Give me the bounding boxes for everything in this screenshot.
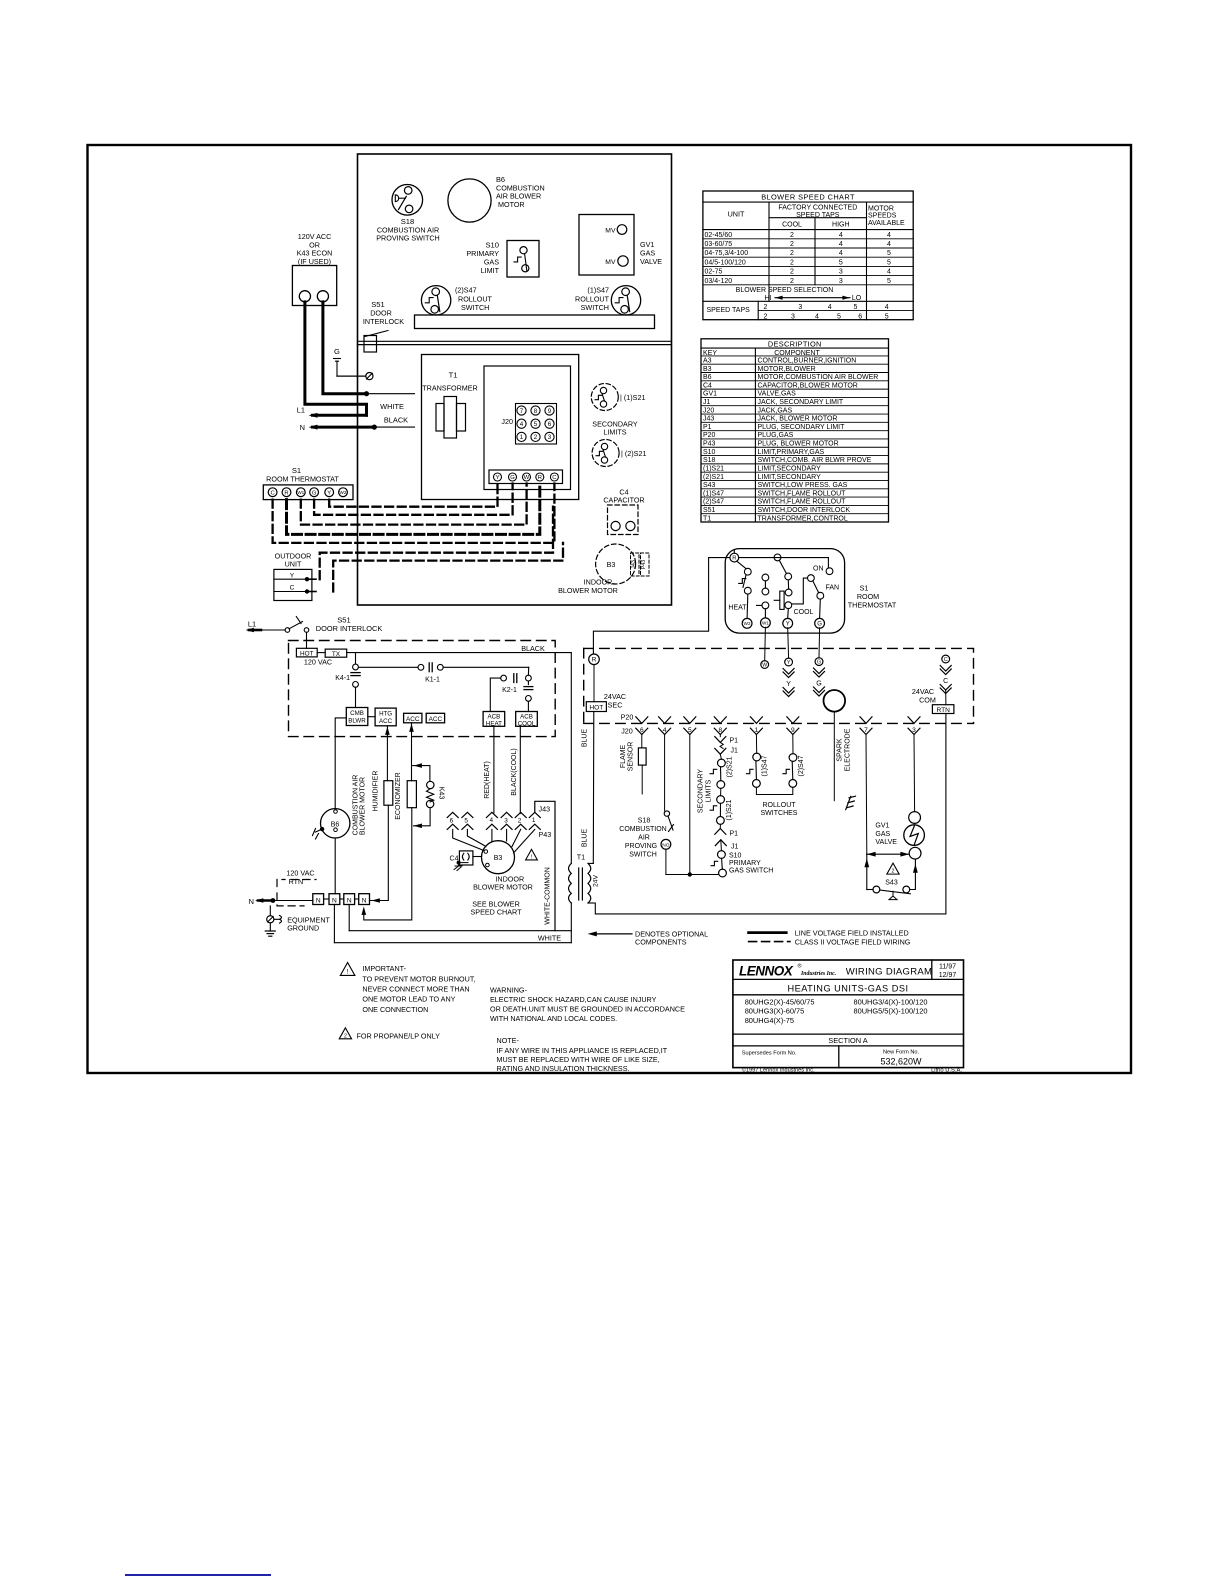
- svg-text:4: 4: [828, 304, 832, 311]
- svg-text:CAPACITOR: CAPACITOR: [603, 496, 644, 505]
- svg-text:B3: B3: [703, 366, 712, 373]
- svg-text:5: 5: [885, 313, 889, 320]
- svg-text:TX: TX: [332, 651, 341, 658]
- control box outline: [422, 355, 579, 500]
- svg-text:(1)S47: (1)S47: [762, 755, 769, 776]
- wire K1-1 to K2-1: [443, 666, 529, 668]
- wire B6 to N terminal: [334, 838, 336, 894]
- class II field wiring dashed box: [584, 648, 974, 722]
- wire W1 to W: [764, 627, 767, 660]
- svg-text:N: N: [249, 897, 254, 906]
- svg-text:04/5-100/120: 04/5-100/120: [705, 259, 746, 266]
- svg-text:(1)S21: (1)S21: [726, 799, 733, 820]
- svg-text:Y: Y: [290, 573, 295, 580]
- switch S43 low gas pressure (optional): [866, 854, 868, 889]
- terminal RTN: [932, 705, 954, 714]
- svg-text:HOT: HOT: [589, 705, 603, 712]
- svg-text:RTN: RTN: [289, 877, 304, 886]
- svg-text:5: 5: [837, 313, 841, 320]
- svg-text:LIMIT,PRIMARY,GAS: LIMIT,PRIMARY,GAS: [758, 449, 825, 456]
- svg-text:C4: C4: [703, 382, 712, 389]
- svg-text:BLACK: BLACK: [384, 416, 408, 425]
- svg-text:(IF USED): (IF USED): [298, 257, 331, 266]
- blower speed chart table: [703, 191, 913, 320]
- svg-text:6: 6: [858, 313, 862, 320]
- wire rollout series link: [756, 787, 792, 794]
- svg-text:3: 3: [791, 313, 795, 320]
- svg-text:FAN: FAN: [826, 585, 840, 592]
- svg-text:2: 2: [534, 434, 538, 441]
- svg-text:PRIMARY: PRIMARY: [729, 860, 761, 867]
- svg-text:(1)S21: (1)S21: [703, 465, 724, 472]
- relay coil K43: [413, 766, 430, 782]
- svg-text:80UHG3(X)-60/75: 80UHG3(X)-60/75: [745, 1007, 805, 1016]
- neutral rail (to T1 primary): [349, 930, 571, 932]
- svg-text:K43: K43: [438, 787, 445, 800]
- svg-text:J20: J20: [621, 727, 633, 736]
- svg-text:12/97: 12/97: [939, 972, 957, 979]
- svg-text:GAS SWITCH: GAS SWITCH: [729, 867, 773, 874]
- svg-text:T1: T1: [449, 371, 458, 380]
- svg-text:MV: MV: [605, 228, 616, 235]
- svg-text:S43: S43: [885, 880, 898, 887]
- svg-text:2: 2: [892, 869, 895, 875]
- svg-text:HTG: HTG: [379, 710, 392, 717]
- svg-text:LENNOX: LENNOX: [739, 964, 794, 979]
- svg-text:FLAME: FLAME: [620, 745, 627, 769]
- svg-text:1: 1: [520, 434, 524, 441]
- svg-text:BLACK: BLACK: [521, 644, 545, 653]
- svg-text:SWITCH: SWITCH: [629, 852, 657, 859]
- svg-text:BLOWER MOTOR: BLOWER MOTOR: [360, 777, 367, 835]
- motor B6 combustion air blower (schematic): [321, 809, 350, 838]
- svg-text:J1: J1: [731, 748, 739, 755]
- svg-text:Supersedes Form No.: Supersedes Form No.: [742, 1051, 797, 1057]
- motor B3 indoor blower (schematic): [482, 841, 515, 874]
- terminal R: [730, 553, 739, 562]
- svg-text:TRANSFORMER,CONTROL: TRANSFORMER,CONTROL: [758, 515, 848, 522]
- svg-text:(2)S47: (2)S47: [703, 499, 724, 506]
- svg-text:120 VAC: 120 VAC: [304, 658, 332, 667]
- svg-text:80UHG5/5(X)-100/120: 80UHG5/5(X)-100/120: [854, 1007, 928, 1016]
- svg-text:N: N: [332, 897, 337, 904]
- svg-text:W: W: [762, 662, 767, 668]
- control board terminal strip Y G W R C: [489, 470, 563, 484]
- thermostat internal top wire: [739, 557, 829, 559]
- svg-text:FACTORY CONNECTED: FACTORY CONNECTED: [778, 205, 857, 212]
- svg-text:9: 9: [548, 408, 552, 415]
- svg-text:PLUG, BLOWER MOTOR: PLUG, BLOWER MOTOR: [758, 441, 839, 448]
- svg-text:80UHG3/4(X)-100/120: 80UHG3/4(X)-100/120: [854, 997, 928, 1006]
- svg-text:TO PREVENT MOTOR BURNOUT,: TO PREVENT MOTOR BURNOUT,: [362, 974, 475, 983]
- svg-text:PLUG,GAS: PLUG,GAS: [758, 432, 794, 439]
- svg-text:BLOWER SPEED SELECTION: BLOWER SPEED SELECTION: [736, 287, 834, 294]
- burner manifold bar: [415, 315, 655, 329]
- legend optional components: [592, 933, 633, 935]
- svg-text:COMPONENTS: COMPONENTS: [635, 937, 687, 946]
- svg-text:2: 2: [518, 817, 522, 824]
- component description table: [701, 339, 889, 522]
- unit cabinet outline: [358, 154, 672, 605]
- svg-text:11/97: 11/97: [939, 963, 956, 970]
- svg-text:JACK,GAS: JACK,GAS: [758, 407, 793, 414]
- svg-text:G: G: [312, 490, 317, 496]
- svg-text:ON: ON: [813, 565, 824, 572]
- jack J20 9-pin grid: [516, 404, 557, 445]
- legend class II voltage: [749, 941, 790, 943]
- limit chain P1/J1 lower: [719, 824, 721, 828]
- svg-text:W1: W1: [297, 490, 304, 495]
- connector P20/J20 pin chevrons: [636, 717, 648, 724]
- wire TX to BLACK riser: [347, 652, 572, 654]
- terminal Y: [787, 609, 790, 619]
- svg-text:04-75,3/4-100: 04-75,3/4-100: [705, 250, 749, 257]
- legend line voltage: [749, 931, 787, 934]
- switch S51 door interlock (schematic): [285, 628, 290, 633]
- svg-text:DESCRIPTION: DESCRIPTION: [768, 339, 822, 348]
- svg-text:(2)S21: (2)S21: [727, 756, 734, 777]
- wire W1 thermostat run (dashed): [301, 484, 527, 525]
- svg-text:G: G: [510, 475, 515, 481]
- svg-text:SWITCH: SWITCH: [461, 303, 489, 312]
- svg-text:BLACK(COOL): BLACK(COOL): [511, 748, 518, 795]
- svg-text:C: C: [290, 585, 295, 592]
- wires P43 pins to B3: [453, 829, 484, 850]
- svg-text:G: G: [816, 681, 821, 688]
- svg-text:MOTOR,COMBUSTION AIR BLOWER: MOTOR,COMBUSTION AIR BLOWER: [758, 374, 879, 381]
- wire Y drop: [787, 628, 790, 658]
- wire C thermostat run (dashed): [273, 484, 555, 543]
- svg-text:SWITCH: SWITCH: [581, 303, 609, 312]
- svg-text:HOT: HOT: [300, 650, 314, 657]
- svg-text:LIMIT,SECONDARY: LIMIT,SECONDARY: [758, 474, 822, 481]
- svg-text:NEVER CONNECT MORE THAN: NEVER CONNECT MORE THAN: [362, 984, 469, 993]
- terminal G: [819, 599, 822, 618]
- svg-text:S51: S51: [703, 507, 716, 514]
- svg-text:5: 5: [839, 259, 843, 266]
- svg-text:P43: P43: [641, 560, 647, 570]
- svg-text:J43: J43: [539, 805, 551, 814]
- switch (2)S47 (schematic): [792, 735, 794, 754]
- svg-text:SPARK: SPARK: [837, 738, 844, 762]
- svg-text:SPEED CHART: SPEED CHART: [471, 908, 523, 917]
- svg-text:| (2)S21: | (2)S21: [621, 449, 646, 458]
- terminal R (unit side): [589, 654, 600, 665]
- svg-text:G: G: [817, 621, 822, 627]
- terminal box CMB BLWR: [346, 708, 368, 726]
- svg-text:B6: B6: [703, 374, 712, 381]
- svg-text:SWITCH,LOW PRESS. GAS: SWITCH,LOW PRESS. GAS: [758, 482, 848, 489]
- svg-text:(2)S47: (2)S47: [455, 286, 477, 295]
- limit (1)S21 secondary (pictorial, optional): [591, 384, 618, 411]
- svg-text:4: 4: [490, 817, 494, 824]
- wire CMB BLWR to B6: [335, 718, 346, 809]
- svg-text:WHITE: WHITE: [538, 934, 561, 943]
- svg-text:AVAILABLE: AVAILABLE: [868, 220, 905, 227]
- svg-text:2: 2: [763, 313, 767, 320]
- plug P43 chevrons: [447, 824, 458, 829]
- wire HOT to T1 secondary (blue): [592, 712, 595, 864]
- svg-text:K1-1: K1-1: [425, 676, 440, 683]
- svg-text:N: N: [347, 897, 352, 904]
- svg-text:4: 4: [839, 232, 843, 239]
- svg-text:LIMITS: LIMITS: [706, 779, 713, 802]
- svg-text:MOTOR: MOTOR: [498, 200, 525, 209]
- footer link underline: [126, 1574, 270, 1576]
- svg-text:N: N: [316, 897, 321, 904]
- wire G thermostat run (dashed): [314, 484, 512, 515]
- svg-text:NO: NO: [662, 843, 669, 849]
- svg-text:W2: W2: [340, 490, 347, 495]
- svg-text:ACC: ACC: [379, 718, 393, 725]
- svg-text:WHITE-COMMON: WHITE-COMMON: [545, 867, 552, 925]
- svg-text:ELECTRIC SHOCK HAZARD,CAN CAUS: ELECTRIC SHOCK HAZARD,CAN CAUSE INJURY: [490, 995, 657, 1004]
- svg-text:PROVING SWITCH: PROVING SWITCH: [376, 234, 440, 243]
- svg-text:1: 1: [532, 817, 536, 824]
- spark electrode: [824, 690, 846, 712]
- svg-text:24V: 24V: [593, 874, 600, 887]
- motor B6 combustion air blower (pictorial circle): [448, 179, 491, 222]
- svg-text:J43: J43: [703, 416, 714, 423]
- svg-text:WHITE: WHITE: [380, 402, 404, 411]
- svg-text:6: 6: [548, 421, 552, 428]
- svg-text:FOR PROPANE/LP ONLY: FOR PROPANE/LP ONLY: [357, 1032, 441, 1041]
- svg-text:VALVE,GAS: VALVE,GAS: [758, 391, 797, 398]
- svg-text:2: 2: [790, 250, 794, 257]
- jack J43 chevrons: [447, 812, 458, 817]
- svg-text:BLUE: BLUE: [582, 829, 589, 848]
- svg-text:5: 5: [887, 250, 891, 257]
- svg-text:(1)S47: (1)S47: [587, 286, 609, 295]
- wire outdoor C run (dashed): [333, 543, 563, 592]
- svg-text:RATING AND INSULATION THICKNES: RATING AND INSULATION THICKNESS.: [497, 1064, 630, 1073]
- svg-text:B3: B3: [494, 855, 503, 862]
- svg-text:OR DEATH.UNIT MUST BE GROUNDED: OR DEATH.UNIT MUST BE GROUNDED IN ACCORD…: [490, 1005, 685, 1014]
- wire thermostat R to 24V hot: [593, 550, 734, 654]
- svg-text:BLOWER SPEED CHART: BLOWER SPEED CHART: [761, 193, 855, 202]
- svg-text:ACC: ACC: [406, 716, 420, 723]
- svg-text:2: 2: [790, 241, 794, 248]
- svg-text:JACK, SECONDARY LIMIT: JACK, SECONDARY LIMIT: [758, 399, 844, 406]
- svg-text:4: 4: [887, 232, 891, 239]
- svg-text:6: 6: [450, 817, 454, 824]
- svg-text:ELECTRODE: ELECTRODE: [845, 728, 852, 771]
- svg-text:T1: T1: [703, 515, 711, 522]
- terminal box ACC 2: [426, 713, 444, 723]
- svg-text:COOL: COOL: [782, 222, 802, 229]
- wire L1 lead with arrow: [313, 414, 367, 417]
- limit S10 primary gas (pictorial): [507, 241, 539, 278]
- svg-text:2: 2: [790, 278, 794, 285]
- page outer border: [88, 145, 1132, 1073]
- wire 120V ACC right lead (line voltage): [323, 302, 367, 394]
- contact above ACB COOL: [524, 686, 533, 688]
- humidifier (pictorial rect): [384, 781, 393, 806]
- wire HTG ACC to humidifier: [386, 726, 388, 781]
- svg-text:GV1: GV1: [703, 391, 717, 398]
- svg-text:L1: L1: [248, 620, 256, 629]
- svg-text:SWITCH,COMB. AIR BLWR PROVE: SWITCH,COMB. AIR BLWR PROVE: [758, 457, 872, 464]
- svg-text:G: G: [817, 659, 821, 665]
- terminal C (field): [942, 655, 950, 663]
- terminal box HTG ACC: [375, 708, 396, 726]
- svg-text:SPEED TAPS: SPEED TAPS: [707, 307, 751, 314]
- svg-text:BLOWER MOTOR: BLOWER MOTOR: [558, 586, 618, 595]
- svg-text:ACC: ACC: [429, 716, 443, 723]
- svg-text:3: 3: [839, 278, 843, 285]
- svg-text:TRANSFORMER: TRANSFORMER: [422, 384, 478, 393]
- svg-text:ROLLOUT: ROLLOUT: [762, 802, 796, 809]
- svg-text:4: 4: [815, 313, 819, 320]
- svg-text:Industries Inc.: Industries Inc.: [800, 971, 836, 977]
- svg-text:4: 4: [839, 241, 843, 248]
- motor B3 indoor blower (pictorial, optional): [596, 544, 636, 584]
- warning triangle propane: [339, 1028, 351, 1039]
- title block: [733, 960, 964, 1068]
- contact K2-1: [501, 675, 507, 681]
- svg-text:P1: P1: [730, 738, 739, 745]
- svg-text:COMBUSTION AIR: COMBUSTION AIR: [353, 775, 360, 836]
- svg-text:(1)S47: (1)S47: [703, 490, 724, 497]
- svg-text:UNIT: UNIT: [728, 209, 745, 218]
- svg-text:2: 2: [790, 259, 794, 266]
- WHITE rail: [334, 942, 571, 944]
- svg-text:COOL: COOL: [794, 609, 814, 616]
- svg-text:532,620W: 532,620W: [880, 1057, 922, 1067]
- switch (2)S47 flame rollout (pictorial): [421, 286, 450, 315]
- svg-text:5: 5: [887, 278, 891, 285]
- wire CMB BLWR link to HTG ACC: [368, 716, 375, 718]
- limit chain P1/J1 upper: [719, 735, 721, 737]
- svg-text:IMPORTANT-: IMPORTANT-: [362, 964, 406, 973]
- transformer T1 (pictorial): [444, 397, 457, 439]
- svg-text:®: ®: [798, 963, 802, 970]
- svg-text:MOTOR,BLOWER: MOTOR,BLOWER: [758, 366, 816, 373]
- svg-text:LIMIT: LIMIT: [481, 266, 500, 275]
- svg-text:BLUE: BLUE: [582, 729, 589, 748]
- gas valve selector arrows: [867, 853, 909, 855]
- svg-text:Y: Y: [787, 660, 791, 666]
- cool contact chain: [774, 554, 781, 561]
- limit (2)S21 secondary (pictorial, optional): [592, 440, 619, 467]
- wire outdoor Y run (dashed): [320, 507, 553, 580]
- wire BLACK(COOL) drop: [519, 726, 521, 813]
- svg-text:N: N: [300, 423, 305, 432]
- svg-text:©1997 Lennox Industries Inc.: ©1997 Lennox Industries Inc.: [742, 1067, 815, 1074]
- svg-text:2: 2: [344, 1033, 347, 1039]
- terminal box ACB HEAT: [483, 712, 505, 727]
- svg-text:T1: T1: [577, 853, 585, 862]
- wire N lead with arrow: [313, 426, 375, 429]
- svg-text:5: 5: [887, 259, 891, 266]
- svg-text:3: 3: [504, 817, 508, 824]
- svg-text:J1: J1: [731, 843, 739, 850]
- fan switch ON: [827, 558, 829, 568]
- svg-text:GROUND: GROUND: [287, 924, 319, 933]
- svg-text:SEC: SEC: [608, 701, 623, 710]
- wire pin3 to gas valve: [913, 735, 916, 812]
- svg-text:N: N: [362, 897, 367, 904]
- svg-text:C: C: [271, 490, 275, 496]
- svg-text:ACB: ACB: [520, 714, 533, 721]
- svg-text:CLASS II VOLTAGE FIELD WIRING: CLASS II VOLTAGE FIELD WIRING: [795, 937, 911, 946]
- svg-text:NOTE-: NOTE-: [497, 1036, 520, 1045]
- svg-text:UNIT: UNIT: [285, 560, 302, 569]
- svg-text:ONE CONNECTION: ONE CONNECTION: [362, 1005, 428, 1014]
- svg-text:J1: J1: [703, 399, 711, 406]
- warning triangle IMPORTANT: [340, 962, 355, 975]
- svg-text:C: C: [552, 475, 556, 481]
- svg-text:Y: Y: [786, 621, 790, 627]
- svg-text:RED(HEAT): RED(HEAT): [484, 761, 491, 799]
- svg-text:G: G: [334, 347, 340, 356]
- svg-text:SPEEDS: SPEEDS: [868, 213, 897, 220]
- svg-text:LINE VOLTAGE FIELD INSTALLED: LINE VOLTAGE FIELD INSTALLED: [795, 928, 909, 937]
- svg-text:4: 4: [887, 269, 891, 276]
- plug P20 / jack J20 interface (dashed): [584, 722, 974, 724]
- svg-text:HUMIDIFIER: HUMIDIFIER: [373, 771, 380, 812]
- svg-text:GV1: GV1: [875, 823, 889, 830]
- thermostat S1 (schematic) rounded box: [725, 549, 844, 634]
- switch (1)S47 (schematic): [755, 735, 757, 754]
- svg-text:PROVING: PROVING: [625, 843, 657, 850]
- wire N box3 to rail: [348, 905, 350, 931]
- svg-text:5: 5: [853, 304, 857, 311]
- svg-text:80UHG2(X)-45/60/75: 80UHG2(X)-45/60/75: [745, 997, 815, 1006]
- svg-text:| (1)S21: | (1)S21: [620, 393, 645, 402]
- svg-text:P43: P43: [539, 830, 552, 839]
- svg-text:Y: Y: [327, 490, 331, 496]
- svg-text:R: R: [732, 556, 736, 562]
- svg-text:LIMIT,SECONDARY: LIMIT,SECONDARY: [758, 465, 822, 472]
- terminal G (field): [815, 658, 823, 666]
- svg-text:S10: S10: [703, 449, 716, 456]
- svg-text:WITH NATIONAL AND LOCAL CODES.: WITH NATIONAL AND LOCAL CODES.: [490, 1014, 617, 1023]
- svg-text:02-45/60: 02-45/60: [705, 232, 733, 239]
- svg-text:5: 5: [534, 421, 538, 428]
- svg-text:03/4-120: 03/4-120: [705, 278, 733, 285]
- svg-text:S10: S10: [729, 852, 742, 859]
- svg-text:80UHG4(X)-75: 80UHG4(X)-75: [745, 1016, 794, 1025]
- svg-text:2: 2: [763, 304, 767, 311]
- terminal W1: [764, 609, 766, 618]
- svg-text:SECTION A: SECTION A: [828, 1036, 867, 1045]
- svg-text:INTERLOCK: INTERLOCK: [363, 317, 404, 326]
- wire RED(HEAT) drop: [493, 726, 495, 813]
- terminal boxes N: [313, 894, 324, 905]
- svg-text:MOTOR: MOTOR: [868, 205, 894, 212]
- svg-text:ECONOMIZER: ECONOMIZER: [395, 772, 402, 819]
- heat anticipator switch: [737, 561, 746, 568]
- svg-text:BLOWER MOTOR: BLOWER MOTOR: [473, 883, 533, 892]
- control board inner outline: [484, 366, 571, 490]
- svg-text:4: 4: [839, 250, 843, 257]
- svg-text:VALVE: VALVE: [875, 839, 897, 846]
- svg-text:C: C: [944, 657, 948, 663]
- wire humidifier to N terminal: [378, 805, 388, 900]
- svg-text:S43: S43: [703, 482, 716, 489]
- switch (1)S47 flame rollout (pictorial): [611, 286, 640, 315]
- terminal Y (field): [785, 658, 793, 666]
- contact K4-1: [353, 664, 359, 670]
- optional components dashed box (120VAC): [289, 641, 556, 737]
- svg-text:02-75: 02-75: [705, 269, 723, 276]
- wire pin5 to rail: [689, 735, 691, 875]
- wire R thermostat run (heavy dashed): [287, 484, 540, 535]
- wire to transformer primary (white): [367, 393, 415, 395]
- svg-text:VALVE: VALVE: [640, 257, 662, 266]
- switch S18 (schematic): [664, 735, 666, 811]
